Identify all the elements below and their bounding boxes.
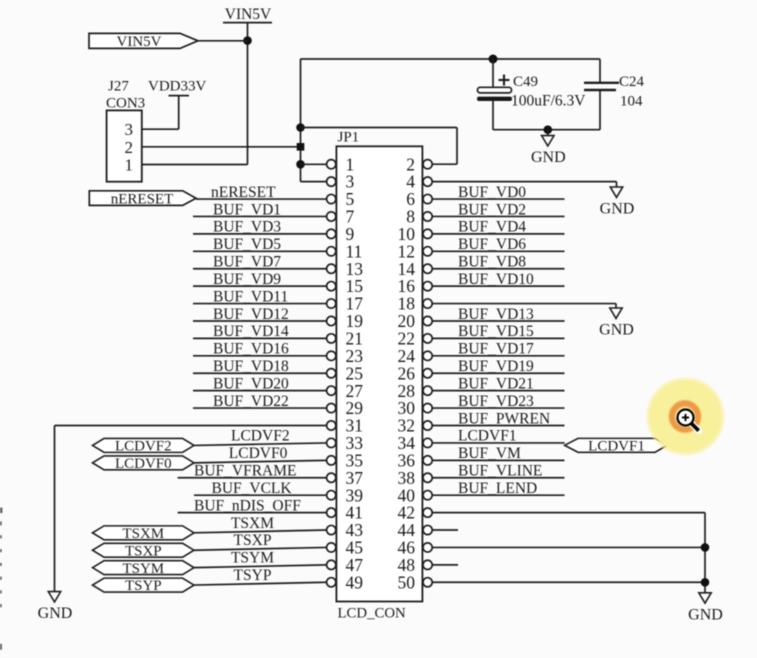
svg-text:3: 3 (125, 120, 134, 139)
svg-text:BUF_VD10: BUF_VD10 (458, 271, 534, 288)
svg-text:BUF_VD19: BUF_VD19 (458, 358, 534, 375)
svg-text:2: 2 (125, 138, 134, 157)
svg-text:BUF_VD18: BUF_VD18 (213, 358, 289, 375)
svg-text:BUF_VD23: BUF_VD23 (458, 393, 534, 410)
svg-text:VIN5V: VIN5V (225, 6, 272, 23)
svg-text:BUF_VM: BUF_VM (458, 445, 521, 462)
svg-text:TSYP: TSYP (234, 567, 272, 584)
svg-text:104: 104 (620, 93, 643, 109)
svg-text:TSYP: TSYP (125, 578, 162, 594)
svg-text:BUF_LEND: BUF_LEND (458, 480, 537, 497)
svg-text:GND: GND (599, 322, 634, 339)
svg-text:BUF_VD8: BUF_VD8 (458, 254, 526, 271)
svg-text:LCDVF2: LCDVF2 (231, 428, 290, 445)
svg-text:BUF_VD1: BUF_VD1 (213, 201, 281, 218)
svg-text:1: 1 (125, 156, 134, 175)
svg-text:BUF_nDIS_OFF: BUF_nDIS_OFF (194, 497, 301, 514)
svg-text:BUF_VLINE: BUF_VLINE (458, 463, 542, 480)
svg-text:BUF_VD12: BUF_VD12 (213, 306, 289, 323)
svg-text:J27: J27 (108, 79, 129, 95)
svg-text:LCDVF1: LCDVF1 (588, 438, 645, 454)
svg-text:BUF_VD6: BUF_VD6 (458, 236, 526, 253)
svg-text:TSXP: TSXP (234, 532, 272, 549)
svg-text:C49: C49 (513, 74, 538, 90)
svg-text:BUF_VCLK: BUF_VCLK (212, 480, 293, 497)
svg-text:BUF_VD13: BUF_VD13 (458, 306, 534, 323)
svg-text:49: 49 (346, 572, 364, 592)
svg-text:LCD_CON: LCD_CON (338, 605, 407, 621)
svg-text:BUF_VD17: BUF_VD17 (458, 341, 534, 358)
svg-text:50: 50 (398, 572, 416, 592)
svg-text:BUF_VD20: BUF_VD20 (213, 375, 289, 392)
svg-text:BUF_VD11: BUF_VD11 (213, 288, 288, 305)
svg-text:nERESET: nERESET (111, 191, 174, 207)
svg-text:LCDVF1: LCDVF1 (458, 428, 517, 445)
svg-text:LCDVF0: LCDVF0 (115, 456, 172, 472)
svg-text:BUF_PWREN: BUF_PWREN (458, 410, 550, 427)
svg-text:LCDVF0: LCDVF0 (229, 445, 288, 462)
svg-text:TSXP: TSXP (125, 543, 162, 559)
svg-text:BUF_VD7: BUF_VD7 (213, 254, 281, 271)
svg-text:BUF_VD14: BUF_VD14 (213, 323, 289, 340)
svg-text:TSYM: TSYM (231, 550, 274, 567)
svg-text:BUF_VD5: BUF_VD5 (213, 236, 281, 253)
svg-text:CON3: CON3 (106, 96, 145, 112)
svg-text:BUF_VD22: BUF_VD22 (213, 393, 289, 410)
svg-text:BUF_VD2: BUF_VD2 (458, 201, 526, 218)
svg-text:nERESET: nERESET (211, 184, 276, 201)
svg-text:LCDVF2: LCDVF2 (115, 439, 172, 455)
svg-text:TSYM: TSYM (122, 561, 164, 577)
svg-text:C24: C24 (619, 74, 645, 90)
svg-text:VIN5V: VIN5V (117, 34, 162, 50)
svg-text:GND: GND (600, 201, 635, 218)
svg-text:JP1: JP1 (338, 129, 360, 145)
svg-text:VDD33V: VDD33V (148, 79, 206, 95)
svg-text:BUF_VD3: BUF_VD3 (213, 219, 281, 236)
svg-text:BUF_VD4: BUF_VD4 (458, 219, 526, 236)
svg-text:GND: GND (688, 606, 723, 623)
svg-text:GND: GND (531, 149, 566, 166)
svg-text:100uF/6.3V: 100uF/6.3V (511, 93, 586, 110)
svg-text:GND: GND (38, 605, 73, 622)
svg-text:BUF_VFRAME: BUF_VFRAME (194, 463, 297, 480)
svg-text:BUF_VD16: BUF_VD16 (213, 341, 289, 358)
svg-text:TSXM: TSXM (231, 515, 274, 532)
svg-text:BUF_VD21: BUF_VD21 (458, 375, 534, 392)
svg-text:TSXM: TSXM (122, 526, 164, 542)
svg-text:BUF_VD0: BUF_VD0 (458, 184, 526, 201)
svg-text:BUF_VD15: BUF_VD15 (458, 323, 534, 340)
svg-text:BUF_VD9: BUF_VD9 (213, 271, 281, 288)
